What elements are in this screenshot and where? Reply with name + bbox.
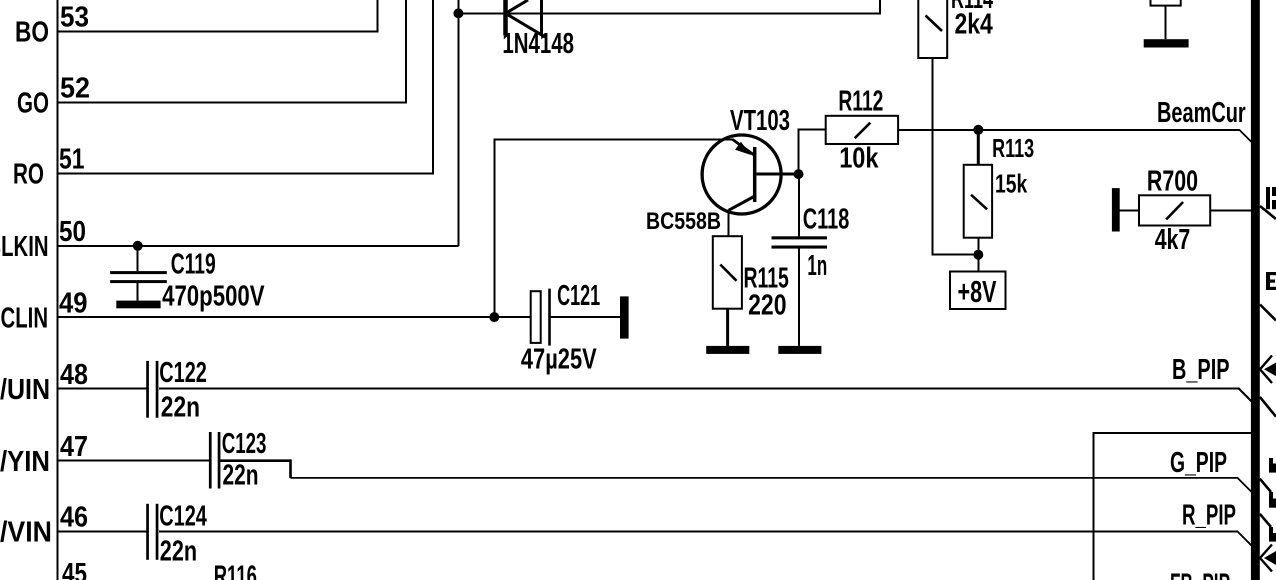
svg-text:+8V: +8V [958,274,997,309]
svg-text:BeamCur: BeamCur [1157,97,1246,129]
svg-text:C121: C121 [557,280,600,312]
svg-text:R116: R116 [214,561,257,580]
svg-text:BO: BO [15,17,49,49]
svg-text:R112: R112 [838,85,883,117]
svg-text:51: 51 [59,144,85,176]
svg-text:22n: 22n [160,536,197,568]
svg-text:FB_PIP: FB_PIP [1170,568,1230,580]
svg-text:B_PIP: B_PIP [1172,354,1230,386]
svg-text:47: 47 [60,431,88,463]
svg-text:52: 52 [60,73,90,105]
svg-text:BLKIN: BLKIN [0,231,49,263]
svg-text:53: 53 [60,2,89,34]
svg-text:/YIN: /YIN [0,446,50,478]
svg-text:1n: 1n [807,250,827,282]
svg-text:C119: C119 [171,248,216,280]
svg-text:/UIN: /UIN [0,374,50,406]
svg-text:C118: C118 [803,204,850,236]
svg-text:R700: R700 [1147,166,1198,198]
svg-text:15k: 15k [995,169,1028,199]
svg-text:C123: C123 [222,428,267,460]
svg-text:50: 50 [59,216,86,248]
svg-text:1N4148: 1N4148 [502,28,574,60]
svg-text:48: 48 [60,359,88,391]
svg-text:470p500V: 470p500V [162,280,265,312]
svg-text:45: 45 [62,558,87,580]
svg-text:4k7: 4k7 [1155,224,1191,256]
svg-text:GO: GO [17,88,49,120]
svg-text:SCLIN: SCLIN [0,302,48,334]
svg-text:G_PIP: G_PIP [1170,447,1227,479]
svg-text:R113: R113 [992,133,1034,163]
svg-text:47µ25V: 47µ25V [521,343,597,375]
svg-text:220: 220 [748,290,786,322]
svg-text:RO: RO [13,159,44,191]
svg-text:49: 49 [59,287,88,319]
svg-text:22n: 22n [223,459,259,491]
svg-text:2k4: 2k4 [955,9,993,41]
svg-text:C122: C122 [159,357,207,389]
svg-text:10k: 10k [839,143,879,175]
svg-text:46: 46 [60,502,88,534]
svg-text:VT103: VT103 [730,105,790,137]
svg-text:R_PIP: R_PIP [1182,499,1236,531]
svg-text:/VIN: /VIN [0,517,52,549]
svg-text:BC558B: BC558B [646,208,721,235]
svg-text:C124: C124 [159,500,207,532]
svg-text:22n: 22n [161,392,200,424]
